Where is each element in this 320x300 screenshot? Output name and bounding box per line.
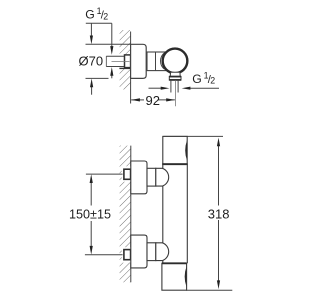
thermostat cap (front view top) [163, 136, 187, 164]
cap shading arc [185, 140, 187, 160]
cap bottom bold line [162, 163, 188, 165]
318 bottom extension line [186, 289, 232, 291]
wall stub clearance (white over hatch) [122, 166, 131, 181]
318 top extension line (collinear with cap top) [163, 135, 223, 137]
wall stub [124, 169, 131, 179]
bold seat line below nut [119, 67, 130, 69]
150 dim lower extension line [85, 254, 123, 256]
dimension 92 line left [131, 99, 144, 101]
svg-text:318: 318 [208, 207, 230, 222]
150 dim upper extension line [86, 173, 123, 175]
body column (front view) [162, 164, 164, 263]
escutcheon (front) [131, 161, 147, 194]
150 dim vertical line lower segment [90, 221, 92, 247]
outlet nut band [169, 76, 181, 80]
union neck [147, 168, 156, 186]
thermostat handle circle [163, 49, 188, 74]
dia-70 bottom extension line [86, 77, 109, 79]
shower hose lines [170, 80, 172, 92]
dia-70 upper arrow [90, 23, 92, 36]
wall face line (top view) [130, 32, 132, 104]
wall face line (front view) [130, 146, 132, 283]
dia-70 lower arrow (up) [91, 87, 93, 95]
valve body cylinder (top view) [147, 52, 169, 71]
wall hatch (top view) [120, 30, 131, 90]
inlet pipe (top view) [106, 55, 124, 57]
lower s-union (mirrored) [122, 235, 169, 268]
svg-text:150±15: 150±15 [69, 208, 111, 222]
bottom cap top bold line [162, 262, 187, 264]
escutcheon flange (top view) [131, 44, 147, 78]
dimension 92 line right [158, 99, 175, 101]
hose arrow right (points left) [190, 87, 219, 89]
svg-text:Ø70: Ø70 [79, 53, 104, 68]
wall hatch (front view) [120, 146, 131, 283]
bottom cap shading arc [185, 267, 187, 287]
150 dim vertical line upper segment [90, 183, 92, 206]
bottom cap (front view) [162, 263, 187, 290]
pipe axis line [112, 60, 130, 62]
union bell [156, 168, 169, 186]
G 1/2 drop arrow to pipe top [111, 23, 113, 46]
rear handle arc [160, 53, 164, 69]
leader line under G 1/2 [86, 22, 112, 24]
pipe lower arrow (up) [111, 76, 113, 79]
upper s-union group [122, 161, 169, 194]
318 dim vertical upper segment [218, 146, 220, 206]
union nut behind wall [125, 55, 131, 68]
dia-70 top extension line [86, 43, 131, 45]
318 dim vertical lower segment [218, 220, 220, 281]
hose axis / extension line [175, 80, 177, 106]
wall pipe clearance (white over hatch) [119, 55, 131, 68]
body divider line [155, 52, 157, 71]
outlet stub below handle [170, 72, 180, 76]
hose arrow left (points right) [149, 87, 162, 89]
svg-text:92: 92 [146, 93, 160, 108]
